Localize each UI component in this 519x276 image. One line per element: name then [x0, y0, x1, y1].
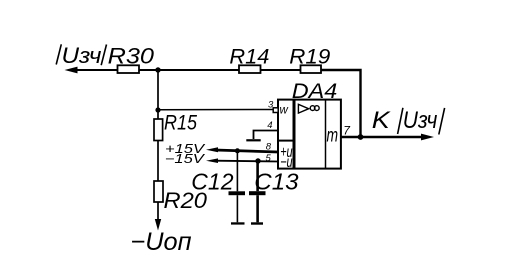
resistor R15 — [154, 119, 163, 141]
capacitor C13 — [249, 161, 266, 222]
svg-text:R15: R15 — [164, 111, 197, 135]
node junction pin3 branch — [155, 107, 160, 112]
node junction C12 tap — [235, 148, 240, 153]
wire to op-amp pin 3 — [158, 109, 278, 111]
svg-text:−15V: −15V — [165, 153, 205, 167]
op-amp amplifier triangle symbol — [298, 104, 308, 113]
svg-text:K: K — [372, 107, 391, 133]
svg-text:4: 4 — [267, 120, 272, 131]
wire R15 to R20 — [157, 141, 159, 182]
svg-text:−Uоп: −Uоп — [131, 228, 192, 256]
ground chassis bar pin 4 — [246, 139, 260, 141]
svg-text:m: m — [327, 124, 339, 146]
op-amp U=DA4 outer box — [278, 100, 341, 169]
node junction output — [358, 134, 364, 140]
wire R14 to R19 — [261, 69, 301, 71]
wire R30 to R14 — [139, 69, 239, 71]
resistor R19 — [301, 65, 322, 73]
op-amp left field divider (thick) — [293, 99, 296, 169]
label K |Uзч| — [372, 107, 445, 135]
svg-text:Uзч: Uзч — [403, 107, 438, 134]
resistor R30 — [118, 65, 140, 73]
svg-text:C13: C13 — [254, 169, 298, 194]
svg-text:8: 8 — [266, 142, 272, 153]
pin 3 square marker — [273, 108, 278, 113]
wire +15V supply with arrowhead to pin 8 — [206, 147, 278, 152]
resistor R14 — [239, 65, 261, 73]
svg-text:w: w — [280, 104, 289, 116]
resistor R20 — [154, 181, 163, 202]
node junction C13 tap — [255, 158, 260, 163]
wire left output with arrowhead — [65, 67, 118, 74]
ground chassis bar C13 — [251, 222, 263, 224]
wire R20 down with arrowhead to -Uоп — [155, 202, 161, 231]
op-amp right field divider — [325, 100, 327, 169]
capacitor C12 — [229, 151, 246, 223]
wire op-amp pin 4 to chassis — [254, 131, 278, 140]
ground chassis bar C12 — [231, 222, 245, 224]
svg-text:C12: C12 — [191, 169, 233, 195]
wire vertical from top junction — [157, 70, 159, 119]
node label |Uзч|/R30 — [56, 43, 154, 69]
wire output pin 7 with arrowhead — [341, 134, 434, 141]
svg-text:5: 5 — [266, 153, 272, 164]
wire -15V supply with arrowhead to pin 5 — [206, 158, 278, 163]
wire R19 to feedback corner — [321, 70, 361, 137]
node junction top — [155, 67, 160, 72]
svg-text:Uзч: Uзч — [62, 43, 102, 68]
op-amp infinity symbol — [310, 106, 319, 111]
op-amp left column horizontal divider — [277, 140, 293, 142]
svg-text:−u: −u — [280, 153, 293, 170]
